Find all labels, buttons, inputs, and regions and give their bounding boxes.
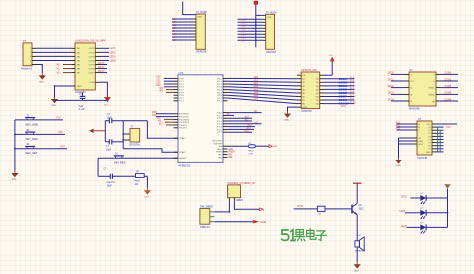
svg-text:KEY_DEC: KEY_DEC	[26, 137, 38, 141]
svg-text:SG4: SG4	[241, 31, 246, 33]
svg-text:P0.1: P0.1	[217, 81, 222, 83]
svg-text:P2.7: P2.7	[217, 132, 222, 134]
svg-text:OUT2: OUT2	[88, 52, 95, 54]
svg-text:LE0: LE0	[156, 77, 161, 79]
svg-text:15pF: 15pF	[107, 118, 113, 120]
svg-text:P33: P33	[59, 132, 64, 134]
svg-text:2Q: 2Q	[316, 82, 319, 84]
svg-text:WR: WR	[218, 157, 222, 159]
svg-text:P34: P34	[61, 146, 66, 148]
svg-text:S_f: S_f	[350, 95, 354, 97]
svg-text:9012: 9012	[359, 209, 365, 211]
svg-text:P2.4: P2.4	[217, 124, 222, 126]
svg-text:GND: GND	[284, 120, 289, 122]
svg-text:HDR1X8: HDR1X8	[196, 51, 206, 54]
svg-text:P1.4: P1.4	[179, 90, 184, 92]
svg-text:P1.0: P1.0	[179, 78, 184, 80]
svg-text:LD4: LD4	[173, 31, 178, 33]
svg-text:OUT1: OUT1	[88, 48, 95, 50]
svg-text:COM2: COM2	[445, 86, 452, 88]
svg-text:Cap Pol: Cap Pol	[107, 182, 116, 184]
svg-text:5D: 5D	[302, 93, 305, 95]
svg-text:MAX1898: MAX1898	[409, 107, 420, 110]
svg-text:P0.7: P0.7	[217, 98, 222, 100]
svg-text:AD5: AD5	[254, 92, 259, 95]
svg-text:P3.3/INT1: P3.3/INT1	[179, 122, 190, 124]
svg-text:LD7: LD7	[173, 40, 178, 42]
svg-text:S_g: S_g	[350, 98, 355, 100]
svg-text:Cap: Cap	[79, 106, 84, 108]
svg-text:LD5: LD5	[173, 34, 178, 36]
svg-text:LED9: LED9	[110, 52, 116, 54]
svg-text:P1.2: P1.2	[179, 84, 184, 86]
svg-text:P3.0/RXD: P3.0/RXD	[179, 114, 189, 116]
svg-text:6Q: 6Q	[316, 96, 319, 98]
svg-text:KEY_SET: KEY_SET	[26, 151, 38, 155]
svg-text:LEDA: LEDA	[110, 55, 116, 58]
svg-text:7D: 7D	[302, 100, 305, 102]
svg-text:Res2: Res2	[249, 150, 255, 152]
svg-text:VCC: VCC	[329, 55, 334, 57]
svg-text:1D: 1D	[302, 79, 305, 81]
svg-text:HDR1X8: HDR1X8	[266, 51, 276, 54]
svg-text:LD0: LD0	[173, 19, 178, 21]
svg-text:P3.4/T0: P3.4/T0	[179, 125, 187, 127]
svg-text:P20: P20	[396, 122, 401, 124]
svg-text:4D: 4D	[302, 89, 305, 91]
svg-text:LE1: LE1	[156, 80, 161, 82]
svg-text:A10: A10	[245, 116, 250, 119]
svg-text:7Q: 7Q	[316, 100, 319, 102]
svg-text:SG5: SG5	[241, 34, 246, 36]
svg-text:A15: A15	[245, 130, 250, 133]
svg-text:RD: RD	[219, 155, 223, 157]
svg-text:OE: OE	[302, 75, 306, 77]
svg-text:P1.7: P1.7	[179, 101, 184, 103]
svg-text:A12: A12	[254, 121, 259, 124]
svg-text:GND: GND	[144, 196, 149, 198]
svg-text:AD4: AD4	[254, 89, 259, 92]
svg-text:HDR1X3: HDR1X3	[200, 226, 210, 229]
svg-text:0.1uF: 0.1uF	[79, 109, 85, 111]
svg-text:LE2: LE2	[156, 82, 161, 84]
svg-text:Res2: Res2	[134, 181, 140, 183]
svg-text:LED8: LED8	[110, 48, 116, 50]
svg-text:AD1: AD1	[254, 79, 259, 82]
svg-text:SG3: SG3	[241, 28, 246, 30]
svg-text:OW_18B20: OW_18B20	[200, 205, 214, 208]
svg-text:P3.2/INT0: P3.2/INT0	[179, 119, 190, 121]
svg-text:P0.5: P0.5	[217, 92, 222, 94]
svg-text:Header 5: Header 5	[21, 66, 33, 70]
svg-text:GND: GND	[396, 165, 401, 167]
svg-text:3Q: 3Q	[316, 86, 319, 88]
svg-text:P0.2: P0.2	[217, 84, 222, 86]
svg-text:A14: A14	[247, 127, 252, 130]
svg-text:R?10: R?10	[297, 206, 303, 208]
svg-text:P21: P21	[396, 125, 401, 127]
svg-text:S_d: S_d	[350, 88, 355, 90]
svg-text:ALE: ALE	[229, 148, 234, 151]
svg-text:P2.3: P2.3	[217, 121, 222, 123]
svg-text:S_b: S_b	[350, 81, 355, 83]
svg-text:MOT2: MOT2	[98, 67, 105, 69]
svg-text:GND: GND	[426, 152, 431, 154]
svg-text:OUT3: OUT3	[88, 56, 95, 58]
svg-text:VCC: VCC	[341, 105, 346, 108]
svg-text:GND: GND	[12, 179, 17, 181]
svg-text:SEG3: SEG3	[388, 93, 395, 95]
svg-text:XTAL2: XTAL2	[179, 151, 186, 154]
svg-text:SPEAKER: SPEAKER	[355, 250, 366, 253]
svg-text:74LS138: 74LS138	[417, 157, 428, 160]
svg-text:4Q: 4Q	[316, 89, 319, 91]
svg-text:COM0: COM0	[445, 73, 452, 75]
svg-text:P?_HDR8: P?_HDR8	[266, 12, 277, 15]
svg-text:P3.5/T1: P3.5/T1	[179, 128, 187, 130]
svg-text:5Q: 5Q	[316, 93, 319, 95]
svg-text:RD: RD	[229, 154, 233, 156]
svg-text:LED3: LED3	[401, 226, 407, 228]
svg-text:VCC: VCC	[104, 105, 109, 107]
svg-text:GND: GND	[77, 86, 82, 88]
svg-text:OUT4: OUT4	[88, 60, 95, 62]
svg-text:SEG2: SEG2	[388, 86, 395, 88]
svg-text:OUT6: OUT6	[88, 68, 95, 70]
svg-text:ALE: ALE	[218, 148, 223, 151]
svg-text:DP: DP	[410, 81, 414, 83]
svg-text:COM1: COM1	[445, 79, 452, 81]
svg-text:AT89C51: AT89C51	[179, 164, 191, 168]
svg-text:LED2: LED2	[400, 211, 406, 213]
svg-text:G2B: G2B	[418, 144, 423, 146]
svg-text:6D: 6D	[302, 96, 305, 98]
svg-text:SG2: SG2	[241, 25, 246, 27]
svg-text:P22: P22	[396, 128, 401, 130]
svg-text:P2.6: P2.6	[217, 129, 222, 131]
svg-text:3D: 3D	[302, 86, 305, 88]
svg-text:+12: +12	[273, 145, 278, 148]
svg-text:18B20: 18B20	[236, 200, 243, 202]
svg-text:+5V: +5V	[446, 126, 451, 129]
svg-text:SEG0: SEG0	[388, 73, 395, 75]
svg-text:SG6: SG6	[241, 37, 246, 39]
svg-text:LEDB: LEDB	[110, 60, 116, 62]
svg-text:COM4: COM4	[445, 99, 452, 101]
svg-text:PSEN: PSEN	[216, 152, 222, 154]
svg-text:8D: 8D	[302, 104, 305, 106]
svg-text:COM: COM	[89, 82, 94, 84]
svg-text:GND: GND	[302, 107, 307, 109]
svg-text:GND: GND	[51, 105, 56, 107]
svg-text:P32: P32	[57, 118, 62, 120]
svg-text:AD0: AD0	[254, 76, 259, 79]
svg-text:8Q: 8Q	[316, 104, 319, 106]
svg-text:GND: GND	[261, 221, 267, 224]
svg-text:AD7: AD7	[254, 98, 259, 101]
svg-text:KEY RES: KEY RES	[114, 161, 125, 165]
svg-text:KEY_ADD: KEY_ADD	[26, 122, 38, 126]
svg-text:CRYSTAL: CRYSTAL	[129, 144, 141, 147]
svg-text:SG1: SG1	[241, 22, 246, 24]
svg-text:SEG1: SEG1	[388, 79, 395, 81]
svg-text:P0.3: P0.3	[217, 87, 222, 89]
svg-text:P0.6: P0.6	[217, 95, 222, 97]
svg-text:PSEN: PSEN	[229, 152, 236, 154]
svg-text:SEG4: SEG4	[388, 99, 395, 101]
svg-text:GND: GND	[39, 81, 44, 83]
svg-text:U?1: U?1	[179, 71, 184, 75]
svg-text:S_e: S_e	[350, 91, 355, 93]
svg-text:RESET: RESET	[179, 158, 187, 160]
svg-text:LD3: LD3	[173, 28, 178, 30]
svg-text:S_a: S_a	[350, 77, 355, 79]
svg-text:AD2: AD2	[254, 82, 259, 85]
svg-text:OUT5: OUT5	[88, 64, 95, 66]
svg-text:P0.0: P0.0	[217, 78, 222, 80]
svg-text:P2.0: P2.0	[217, 113, 222, 115]
svg-text:GNDb: GNDb	[429, 94, 436, 96]
svg-text:P?_HDR8: P?_HDR8	[196, 11, 207, 14]
svg-text:COM3: COM3	[445, 93, 452, 95]
svg-text:15pF: 15pF	[106, 149, 112, 151]
svg-text:P1.5: P1.5	[179, 92, 184, 94]
svg-text:P0.4: P0.4	[217, 90, 222, 92]
svg-text:P2.5: P2.5	[217, 127, 222, 129]
svg-text:LD6: LD6	[173, 37, 178, 39]
svg-text:LE3: LE3	[156, 85, 161, 87]
svg-text:AD6: AD6	[254, 95, 259, 98]
svg-text:P2.2: P2.2	[217, 118, 222, 120]
svg-text:P1.7: P1.7	[179, 98, 184, 100]
svg-text:XTAL1: XTAL1	[179, 137, 186, 140]
svg-text:P0.7: P0.7	[217, 101, 222, 103]
svg-text:P1.1: P1.1	[179, 81, 184, 83]
svg-text:A13: A13	[248, 124, 253, 127]
svg-text:SG0: SG0	[241, 19, 246, 21]
svg-text:LD2: LD2	[173, 25, 178, 27]
svg-text:10uF: 10uF	[107, 185, 113, 187]
svg-text:2D: 2D	[302, 82, 305, 84]
svg-text:LD1: LD1	[173, 22, 178, 24]
svg-text:4.7K: 4.7K	[249, 153, 254, 155]
svg-text:GNDa: GNDa	[429, 88, 436, 90]
svg-text:RST/VPD: RST/VPD	[212, 141, 222, 143]
svg-text:MOT1: MOT1	[98, 63, 105, 65]
svg-text:SG7: SG7	[241, 40, 246, 42]
svg-text:74HC573: 74HC573	[301, 110, 312, 113]
svg-text:EA/VPP: EA/VPP	[214, 142, 222, 145]
svg-text:ULN2003AN_SOL16_L8PK: ULN2003AN_SOL16_L8PK	[75, 40, 106, 43]
svg-text:MOT3: MOT3	[98, 71, 105, 73]
svg-text:LED1: LED1	[401, 196, 407, 198]
svg-text:WR: WR	[229, 157, 233, 159]
svg-text:1Q: 1Q	[316, 79, 319, 81]
svg-text:P3.1/TXD: P3.1/TXD	[179, 117, 189, 119]
svg-text:74HC573_S20: 74HC573_S20	[301, 69, 317, 72]
svg-text:VCC: VCC	[426, 124, 431, 126]
svg-text:AD3: AD3	[254, 86, 259, 89]
svg-text:OUT7: OUT7	[88, 73, 95, 75]
svg-text:GND: GND	[354, 270, 359, 272]
svg-text:S_dp: S_dp	[350, 102, 356, 104]
svg-text:G2A: G2A	[418, 140, 423, 143]
svg-text:P1.6: P1.6	[179, 95, 184, 97]
svg-text:P2.1: P2.1	[217, 115, 222, 117]
svg-text:TXD: TXD	[152, 115, 157, 117]
svg-text:RXD: RXD	[152, 112, 157, 114]
svg-text:DS18B20_MY18B20_4P: DS18B20_MY18B20_4P	[228, 182, 256, 185]
svg-text:P1.3: P1.3	[179, 87, 184, 89]
